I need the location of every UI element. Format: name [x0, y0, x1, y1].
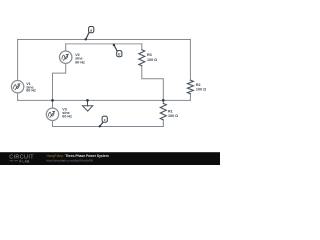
wire V3 top lead	[52, 100, 54, 108]
resistor R2	[187, 80, 193, 94]
wire top bus A	[18, 38, 191, 40]
svg-text:http://circuitlab.com/c6pk24cz: http://circuitlab.com/c6pk24cz6z39/	[47, 158, 94, 162]
svg-text:100 Ω: 100 Ω	[168, 114, 178, 118]
wire R3 bottom jog	[142, 66, 164, 101]
svg-text:100 Ω: 100 Ω	[147, 58, 157, 62]
source V2	[59, 51, 71, 63]
wire R1 bottom lead	[162, 120, 164, 127]
svg-text:R2: R2	[196, 83, 201, 87]
svg-text:HarryFoley / Three-Phase Power: HarryFoley / Three-Phase Power System	[47, 154, 109, 158]
source V1	[11, 81, 23, 93]
svg-text:R1: R1	[168, 110, 173, 114]
footer logo CIRCUIT LAB	[9, 154, 34, 163]
node junction R3/R1	[162, 99, 165, 102]
svg-text:60 Hz: 60 Hz	[75, 61, 85, 65]
source V3	[46, 108, 58, 120]
node junction ground	[86, 99, 89, 102]
svg-text:b: b	[118, 53, 120, 57]
node junction V2/V3	[51, 99, 54, 102]
wire right drop to R2	[189, 39, 191, 80]
wire V3 bottom lead	[52, 120, 54, 126]
wire R2 bottom lead	[189, 94, 191, 101]
wire neutral bus	[18, 99, 191, 101]
resistor R3	[139, 50, 145, 66]
svg-text:a: a	[90, 29, 92, 33]
probe a	[86, 33, 89, 40]
wire bus B	[66, 43, 142, 45]
probe b	[114, 45, 117, 51]
resistor R1	[160, 103, 166, 120]
svg-text:100 Ω: 100 Ω	[196, 88, 206, 92]
svg-text:60 Hz: 60 Hz	[62, 115, 72, 119]
wire V1 bottom lead	[17, 93, 19, 101]
wire V1 top riser	[17, 39, 19, 80]
wire R1 top lead	[162, 100, 164, 103]
ground	[87, 100, 89, 106]
svg-text:60 Hz: 60 Hz	[26, 89, 36, 93]
wire R3 top riser	[141, 44, 143, 50]
svg-text:c: c	[104, 118, 106, 122]
wire bottom phase C	[53, 125, 164, 127]
probe c	[100, 123, 103, 127]
svg-text:R3: R3	[147, 53, 152, 57]
wire V2 top riser	[65, 44, 67, 51]
svg-text:LAB: LAB	[22, 160, 30, 164]
footer bar	[0, 152, 220, 165]
wire V2 bottom jog	[53, 63, 66, 100]
